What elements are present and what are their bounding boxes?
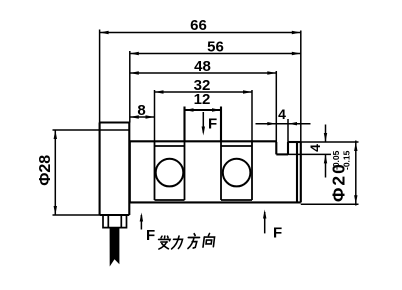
dim 12 [185,109,222,111]
main body outline [130,141,301,202]
svg-text:Φ28: Φ28 [37,155,54,186]
dim 32 [155,90,253,141]
svg-text:F: F [273,225,282,242]
cylinder Φ28 left boss [100,123,130,216]
cylinder cap edge line [100,129,130,131]
svg-text:66: 66 [190,17,207,34]
force arrow F top [202,112,204,133]
hole circle left [156,159,184,187]
char 受 [157,236,170,249]
label 受力方向 (force direction, hand-drawn strokes) [157,234,215,250]
dim 4 groove depth (right, rotated) [288,125,359,178]
force arrow F bottom right [264,212,266,233]
dim Φ20 with tolerance (right, rotated) [301,141,359,206]
svg-text:-0.05: -0.05 [331,150,341,170]
char 力 [172,236,183,249]
dim 8 [130,116,155,118]
svg-text:48: 48 [194,58,211,75]
char 向 [203,234,215,248]
svg-text:4: 4 [278,106,286,122]
dim 48 [130,71,276,142]
dim 56 [130,51,301,123]
char 方 [187,234,200,249]
svg-text:-0.15: -0.15 [342,150,352,170]
recess left pocket [155,141,185,200]
svg-text:8: 8 [137,102,145,119]
hole circle right [223,159,251,187]
svg-text:12: 12 [194,91,211,108]
dim 66 [100,30,301,143]
cable [110,228,120,267]
recess right pocket [221,141,252,200]
svg-text:56: 56 [207,39,224,56]
shaft Φ20 right with groove [276,142,301,202]
dim Φ28 (left, rotated) [53,130,100,215]
svg-text:F: F [146,227,155,244]
dim 4 groove width [256,119,311,142]
force arrow F bottom left [140,215,142,230]
cable gland nut [103,215,127,228]
boss 12mm center [185,107,222,142]
svg-text:F: F [208,116,217,133]
svg-text:4: 4 [307,144,323,152]
